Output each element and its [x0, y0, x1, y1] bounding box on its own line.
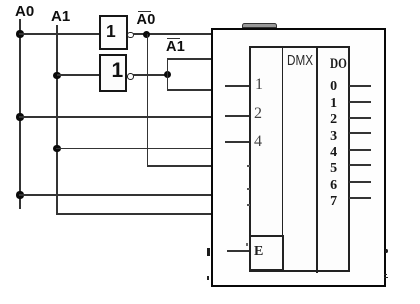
wire A1 second tap to DMX	[56, 148, 212, 149]
pin 4 stub	[225, 141, 250, 142]
pin 2 stub	[225, 115, 250, 116]
output 2 label	[330, 113, 337, 127]
U3 select/body divider	[282, 46, 284, 272]
pin 4 label	[254, 134, 262, 150]
wire /A1 upper branch to DMX	[167, 58, 212, 59]
inverter U1 value label 1	[106, 23, 116, 41]
wire A1 elbow to DMX	[56, 213, 212, 214]
DMX package top tab	[242, 23, 277, 28]
inverter U2 box	[99, 54, 128, 92]
pin E label	[254, 245, 263, 259]
DMX package outline	[211, 28, 386, 288]
output O1 stub	[349, 101, 371, 102]
pin E stub	[227, 250, 249, 251]
output O6 stub	[349, 181, 371, 182]
output 6 label	[330, 179, 337, 193]
pin 1 label	[255, 77, 263, 93]
output 7 label	[330, 195, 337, 209]
output O3 stub	[349, 132, 371, 133]
wire /A0 elbow to DMX	[147, 165, 212, 166]
wire /A1 upper branch vertical	[167, 58, 168, 75]
wire A0 third tap to DMX	[19, 194, 212, 195]
node /A0 junction dot	[143, 31, 150, 38]
wire /A1 lower branch vertical	[167, 74, 168, 91]
pin 1 stub	[225, 85, 250, 86]
wire U1 output to node /A0 and on to DMX	[133, 33, 213, 34]
wire /A0 vertical drop	[147, 34, 148, 167]
inverter U2 value label 1	[112, 60, 124, 81]
output O0 stub	[349, 85, 371, 86]
wire A0 second tap to DMX	[19, 116, 212, 117]
net /A0 overline	[138, 11, 151, 13]
net /A1 overline	[167, 38, 180, 40]
wire A1 vertical bus	[56, 25, 57, 215]
junction on A1 bus at inverter U2 input	[53, 72, 60, 79]
output 0 label	[330, 80, 337, 94]
output O4 stub	[349, 149, 371, 150]
output O7 stub	[349, 197, 371, 198]
inverter U1 output bubble	[127, 32, 134, 39]
net /A1 label	[166, 40, 185, 55]
junction on A0 bus at inverter U1 input	[16, 30, 23, 37]
output 4 label	[330, 146, 337, 160]
output O5 stub	[349, 164, 371, 165]
wire A1 to inverter U2 input	[57, 74, 99, 75]
node /A1 junction dot	[164, 71, 171, 78]
enable block E box	[249, 235, 284, 271]
node A0 label	[15, 4, 34, 19]
wire A0 vertical bus	[19, 19, 20, 209]
U3 output section divider	[316, 46, 318, 273]
junction on A0 bus second tap	[16, 113, 23, 120]
inverter U2 output bubble	[127, 73, 134, 80]
junction on A1 bus second tap	[53, 145, 60, 152]
net /A0 label	[137, 13, 156, 28]
output 1 label	[330, 97, 337, 111]
demultiplexer U3 body	[249, 46, 350, 272]
output 3 label	[330, 130, 337, 144]
output 5 label	[330, 162, 337, 176]
U3 label DMX	[287, 53, 313, 68]
node A1 label	[51, 9, 70, 24]
pin 2 label	[254, 106, 262, 122]
output O2 stub	[349, 117, 371, 118]
wire U2 output to node /A1	[133, 74, 169, 75]
U3 output bank label DO	[330, 57, 347, 72]
wire /A1 lower branch to DMX	[167, 89, 212, 90]
junction on A0 bus third tap	[16, 191, 23, 198]
inverter U1 box	[99, 15, 128, 51]
stray print fragments (decorative)	[247, 165, 250, 167]
wire A0 to inverter U1 input	[19, 33, 99, 34]
